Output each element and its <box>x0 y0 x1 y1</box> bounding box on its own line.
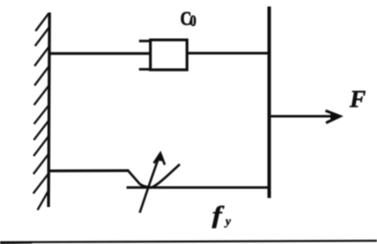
force F arrowhead <box>326 111 341 123</box>
damper C0 : body box <box>150 40 187 70</box>
label f_y <box>212 201 232 228</box>
force F arrow shaft <box>271 115 339 118</box>
svg-text:y: y <box>224 214 232 228</box>
friction element: ramp down <box>128 171 152 188</box>
wire: rod from wall to damper piston <box>50 52 151 55</box>
wall hatching <box>33 13 49 210</box>
wire: rod from damper to right bar <box>188 52 269 55</box>
wire: lower rod from wall <box>50 169 129 172</box>
bottom page rule <box>0 241 377 243</box>
damper C0 : cylinder bottom whisker <box>139 68 151 71</box>
wire: lower rod to right bar <box>127 186 269 189</box>
wall (fixed support, left vertical line) <box>49 13 50 208</box>
svg-text:0: 0 <box>190 13 196 31</box>
right bar (rigid plate) <box>267 7 271 199</box>
variability arrowhead <box>154 153 165 165</box>
svg-text:F: F <box>349 87 366 113</box>
damper C0 : cylinder top whisker <box>139 40 151 43</box>
variability arrow shaft <box>140 155 160 213</box>
friction element: right rising curve <box>153 164 180 187</box>
label C0 <box>180 7 196 31</box>
